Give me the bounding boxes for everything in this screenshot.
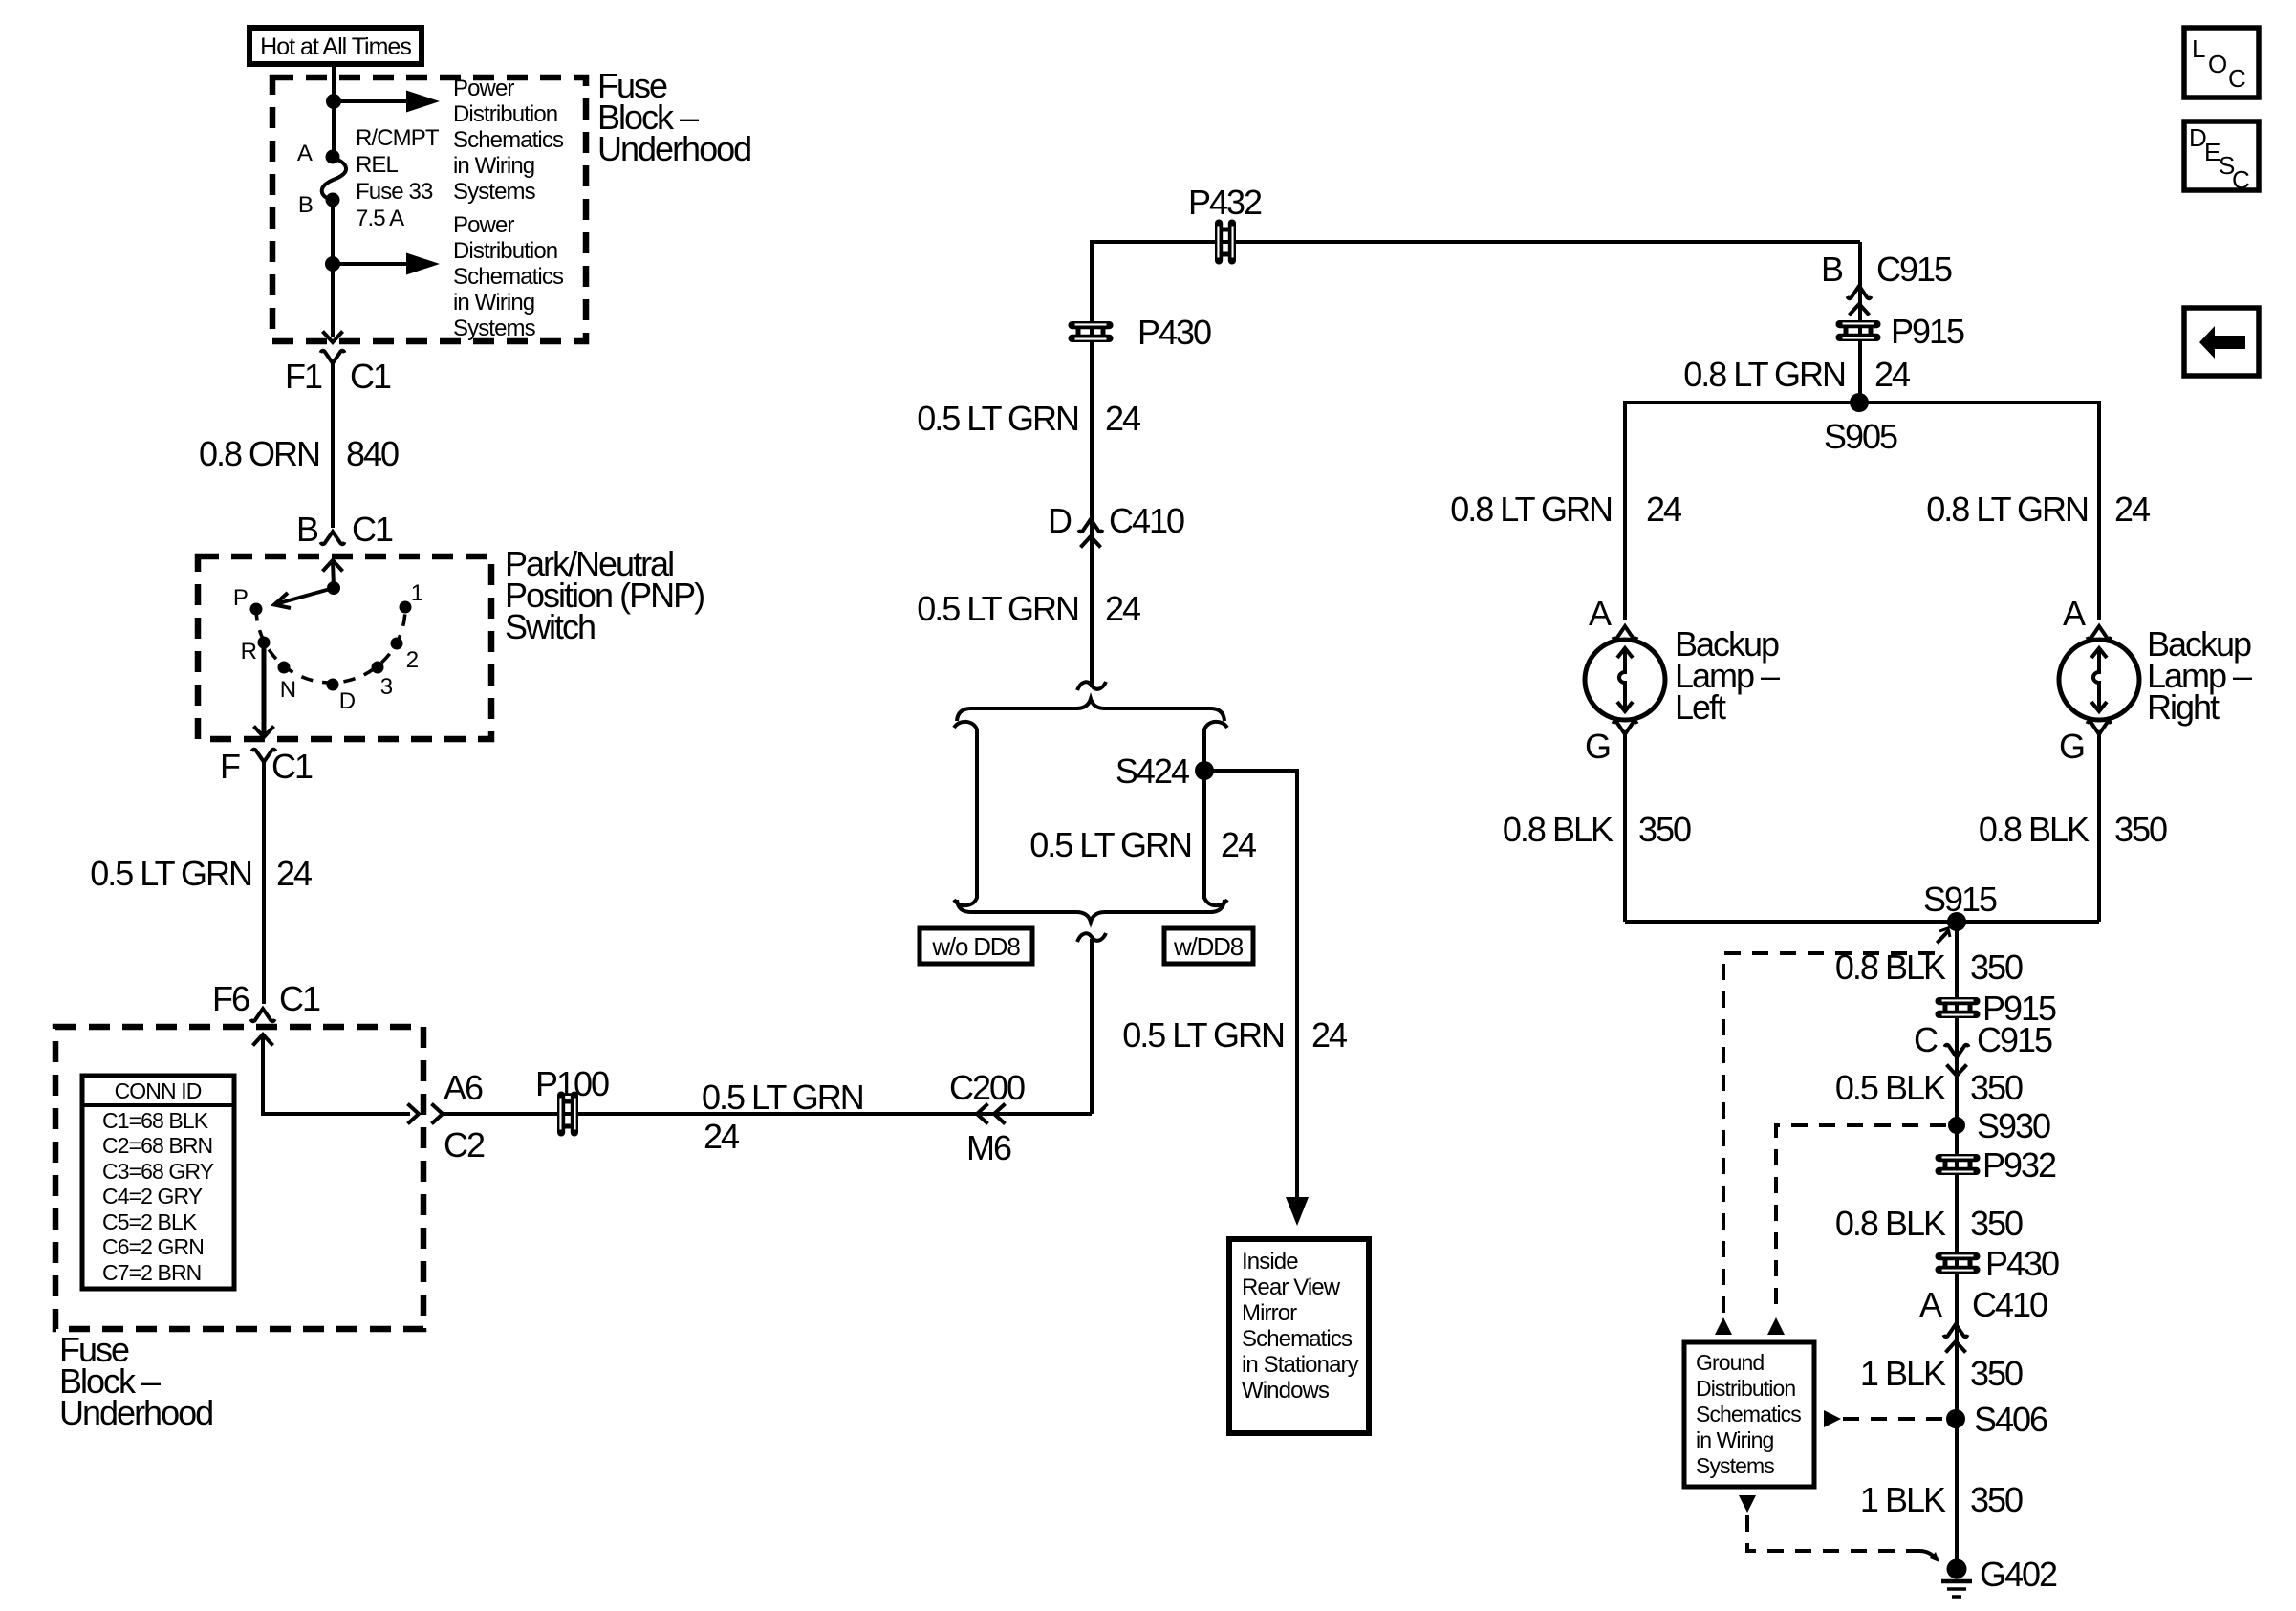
label Fuse Block - Underhood (top) [597, 66, 750, 168]
connector at right lamp G [2088, 722, 2112, 734]
arrow from ground note to S406 [1824, 1410, 1841, 1427]
svg-text:G: G [1585, 727, 1610, 766]
svg-text:C915: C915 [1876, 250, 1952, 289]
svg-text:C7=2 BRN: C7=2 BRN [102, 1260, 201, 1285]
power feed box Hot at All Times [249, 28, 422, 64]
svg-text:D: D [1048, 501, 1072, 540]
fuse value text [356, 125, 440, 231]
contact D [327, 679, 339, 691]
svg-text:P915: P915 [1891, 312, 1964, 351]
svg-text:24: 24 [1221, 825, 1256, 864]
svg-text:Power: Power [453, 212, 514, 238]
label Backup Lamp - Right [2147, 624, 2252, 727]
svg-text:350: 350 [1970, 1480, 2023, 1519]
option bracket left [954, 722, 977, 905]
svg-text:350: 350 [1970, 1068, 2023, 1107]
svg-text:24: 24 [1105, 399, 1140, 438]
corner box back arrow [2184, 308, 2259, 376]
svg-text:Systems: Systems [453, 316, 536, 341]
svg-text:C1: C1 [271, 747, 313, 786]
svg-text:F: F [220, 747, 240, 786]
note power distribution schematics (2) [453, 212, 564, 341]
connector F6/C1 [251, 1009, 275, 1046]
svg-text:P430: P430 [1985, 1244, 2059, 1283]
connector D/C410 [1079, 519, 1103, 548]
svg-text:D: D [339, 688, 356, 714]
note ground distribution schematics [1684, 1342, 1814, 1487]
wire to P100 [443, 1112, 1092, 1116]
contact 3 [372, 662, 384, 674]
contact P [250, 603, 263, 616]
lamp feed rail [1625, 403, 2099, 620]
ground G402 [1941, 1559, 1972, 1598]
svg-text:350: 350 [1970, 1204, 2023, 1243]
connector chevrons exiting fuse block [408, 1104, 444, 1124]
svg-text:C2=68 BRN: C2=68 BRN [102, 1133, 212, 1158]
svg-text:0.5 LT GRN: 0.5 LT GRN [90, 854, 251, 893]
wire into switch [333, 560, 334, 588]
CONN ID table [82, 1076, 234, 1289]
svg-text:A: A [297, 141, 313, 166]
note inside rear view mirror schematics [1229, 1239, 1369, 1433]
svg-text:2: 2 [406, 647, 419, 673]
contact R [258, 637, 271, 649]
wire right side down from P432 run [1858, 242, 1862, 403]
svg-text:Right: Right [2147, 687, 2220, 727]
svg-text:S406: S406 [1974, 1400, 2047, 1439]
svg-text:Mirror: Mirror [1242, 1300, 1297, 1326]
wire left lamp to ground rail [1623, 734, 1627, 922]
svg-text:C1: C1 [350, 357, 391, 396]
dashed link ground note to S406 [1843, 1417, 1947, 1421]
svg-text:Schematics: Schematics [453, 127, 564, 153]
svg-text:C6=2 GRN: C6=2 GRN [102, 1234, 204, 1259]
svg-text:Left: Left [1675, 687, 1726, 727]
option brace top [957, 699, 1224, 721]
svg-text:0.5 LT GRN: 0.5 LT GRN [917, 589, 1078, 628]
svg-text:Systems: Systems [1696, 1453, 1774, 1478]
svg-text:C3=68 GRY: C3=68 GRY [102, 1159, 214, 1184]
option tag w/DD8 [1164, 928, 1253, 964]
grommet P432 [1215, 220, 1236, 265]
junction node top [326, 94, 341, 109]
svg-text:S905: S905 [1824, 417, 1897, 456]
wire up to option braces [1090, 939, 1094, 1114]
arrow into ground note (from S930) [1767, 1317, 1785, 1335]
svg-text:Schematics: Schematics [1696, 1402, 1801, 1426]
svg-text:B: B [298, 192, 313, 218]
svg-text:840: 840 [346, 434, 399, 473]
corner box DESC [2184, 121, 2259, 194]
svg-text:A: A [1589, 594, 1612, 633]
svg-text:0.8 LT GRN: 0.8 LT GRN [1683, 355, 1845, 394]
svg-text:M6: M6 [966, 1128, 1011, 1167]
option bracket right [1204, 722, 1227, 905]
svg-text:C1=68 BLK: C1=68 BLK [102, 1108, 209, 1133]
wire 0.5 LT GRN 24 (left) [262, 762, 266, 1004]
svg-text:C915: C915 [1977, 1020, 2052, 1059]
wire branch to power distribution (2) [333, 262, 411, 266]
svg-text:CONN ID: CONN ID [115, 1078, 202, 1103]
svg-text:0.5 BLK: 0.5 BLK [1835, 1068, 1946, 1107]
fuse block underhood dashed outline (bottom) [55, 1027, 423, 1329]
svg-text:0.5 LT GRN: 0.5 LT GRN [917, 399, 1078, 438]
svg-text:REL: REL [356, 152, 399, 178]
svg-text:B: B [1821, 250, 1843, 289]
switch wiper node [327, 581, 340, 595]
svg-text:N: N [280, 677, 295, 703]
connector F/C1 [252, 727, 276, 763]
svg-text:Fuse 33: Fuse 33 [356, 179, 433, 205]
contact 1 [400, 601, 412, 614]
grommet P100 [557, 1092, 578, 1137]
svg-text:A: A [2063, 594, 2086, 633]
connector at right lamp A [2088, 626, 2112, 639]
svg-text:Distribution: Distribution [453, 238, 557, 264]
svg-text:P100: P100 [535, 1064, 609, 1103]
svg-text:w/DD8: w/DD8 [1173, 932, 1244, 961]
dashed link S915 to ground note [1723, 928, 1950, 1314]
svg-text:Windows: Windows [1242, 1378, 1330, 1404]
wire end squiggle above brace [1077, 682, 1106, 690]
svg-text:7.5 A: 7.5 A [356, 206, 404, 231]
wire right lamp to ground rail [2097, 734, 2101, 922]
contact 2 [391, 638, 403, 650]
fuse block underhood dashed outline (top) [272, 77, 586, 341]
svg-text:350: 350 [2114, 810, 2167, 849]
svg-text:G402: G402 [1980, 1555, 2057, 1594]
contact N [278, 662, 291, 674]
label Park/Neutral Position (PNP) Switch [505, 544, 704, 646]
svg-text:Underhood: Underhood [59, 1393, 212, 1432]
svg-text:C5=2 BLK: C5=2 BLK [102, 1209, 198, 1234]
ground stack wire [1955, 922, 1959, 1569]
svg-text:in Wiring: in Wiring [1696, 1427, 1773, 1452]
svg-text:P932: P932 [1982, 1145, 2056, 1185]
top feed wire with P432 [1092, 242, 1860, 687]
svg-text:C200: C200 [949, 1068, 1025, 1107]
svg-text:Schematics: Schematics [453, 264, 564, 290]
option tag w/o DD8 [920, 928, 1032, 964]
svg-text:Distribution: Distribution [453, 101, 557, 127]
svg-text:C410: C410 [1109, 501, 1184, 540]
svg-text:0.8 BLK: 0.8 BLK [1503, 810, 1614, 849]
svg-text:P430: P430 [1137, 313, 1211, 352]
svg-text:C: C [2228, 64, 2245, 93]
svg-text:Underhood: Underhood [597, 129, 750, 168]
arrow from ground note to G402 [1739, 1495, 1756, 1513]
splice S905 [1850, 393, 1869, 412]
svg-text:R/CMPT: R/CMPT [356, 125, 440, 151]
grommet P915 (bottom) [1936, 997, 1981, 1018]
svg-text:24: 24 [1874, 355, 1910, 394]
svg-text:P432: P432 [1188, 183, 1262, 222]
svg-text:Ground: Ground [1696, 1350, 1764, 1375]
arrow into mirror note [1286, 1197, 1309, 1226]
connector C200/M6 [977, 1104, 1006, 1124]
svg-text:Power: Power [453, 76, 514, 101]
connector C/C915 [1945, 1045, 1969, 1076]
svg-text:Systems: Systems [453, 179, 536, 205]
wire below fuse [331, 200, 335, 337]
dashed link S930 to ground note [1776, 1125, 1946, 1314]
svg-text:350: 350 [1970, 1354, 2023, 1393]
svg-text:A: A [1919, 1285, 1942, 1324]
svg-text:C1: C1 [352, 510, 393, 549]
svg-text:F6: F6 [212, 979, 249, 1018]
svg-text:24: 24 [1311, 1015, 1347, 1055]
svg-text:C: C [2232, 165, 2249, 194]
svg-text:in Stationary: in Stationary [1242, 1352, 1359, 1378]
wire branch to power distribution (1) [334, 99, 411, 103]
park/neutral position switch dashed outline [198, 556, 491, 739]
connector at left lamp A [1614, 626, 1637, 639]
svg-text:0.5 LT GRN: 0.5 LT GRN [702, 1078, 863, 1117]
svg-text:w/o DD8: w/o DD8 [931, 932, 1020, 961]
wire start squiggle below brace [1077, 933, 1106, 942]
splice S424 [1195, 761, 1214, 780]
svg-text:C4=2 GRY: C4=2 GRY [102, 1184, 203, 1208]
svg-text:350: 350 [1638, 810, 1691, 849]
label Fuse Block - Underhood (bottom) [59, 1330, 212, 1432]
backup lamp right [2059, 640, 2139, 720]
svg-text:S915: S915 [1923, 880, 1997, 919]
wire from S424 to mirror feed [1204, 771, 1297, 1197]
note power distribution schematics (1) [453, 76, 564, 205]
svg-text:350: 350 [1970, 947, 2023, 987]
wire from Hot at All Times into fuse block [332, 64, 336, 156]
svg-text:0.8 BLK: 0.8 BLK [1835, 1204, 1946, 1243]
svg-text:P: P [233, 585, 248, 611]
svg-text:0.8 LT GRN: 0.8 LT GRN [1926, 490, 2088, 529]
svg-text:0.8 LT GRN: 0.8 LT GRN [1450, 490, 1612, 529]
svg-text:A6: A6 [444, 1068, 483, 1107]
svg-text:Rear View: Rear View [1242, 1274, 1341, 1300]
svg-text:Inside: Inside [1242, 1249, 1298, 1274]
grommet P915 (top) [1836, 320, 1881, 341]
svg-text:C: C [1914, 1020, 1938, 1059]
svg-text:Switch: Switch [505, 607, 595, 646]
splice S930 [1948, 1117, 1965, 1134]
svg-text:0.5 LT GRN: 0.5 LT GRN [1122, 1015, 1284, 1055]
svg-text:S930: S930 [1977, 1106, 2050, 1145]
svg-text:0.5 LT GRN: 0.5 LT GRN [1029, 825, 1191, 864]
svg-text:24: 24 [1646, 490, 1681, 529]
connector A/C410 [1944, 1324, 1968, 1353]
corner box LOC [2184, 28, 2259, 98]
dashed link ground note to G402 [1747, 1515, 1939, 1562]
svg-text:in Wiring: in Wiring [453, 153, 534, 179]
svg-text:L: L [2192, 34, 2205, 63]
ground rail [1625, 920, 2099, 924]
svg-text:Distribution: Distribution [1696, 1376, 1795, 1401]
svg-text:1 BLK: 1 BLK [1860, 1354, 1946, 1393]
svg-text:24: 24 [276, 854, 312, 893]
svg-text:24: 24 [704, 1117, 739, 1156]
svg-text:C1: C1 [279, 979, 320, 1018]
splice S915 [1947, 912, 1966, 931]
svg-text:F1: F1 [285, 357, 322, 396]
wire from contact R down [262, 642, 267, 734]
svg-text:O: O [2208, 50, 2226, 78]
svg-text:B: B [296, 510, 318, 549]
splice S406 [1946, 1409, 1965, 1428]
grommet P932 [1936, 1154, 1981, 1175]
svg-text:24: 24 [2114, 490, 2150, 529]
switch contact arc dashed [256, 607, 405, 683]
fuse R/CMPT REL Fuse 33 7.5 A [322, 150, 346, 207]
switch wiper arm to P [274, 588, 334, 608]
svg-text:in Wiring: in Wiring [453, 290, 534, 316]
connector at left lamp G [1614, 722, 1637, 734]
svg-text:1 BLK: 1 BLK [1860, 1480, 1946, 1519]
svg-text:0.8 ORN: 0.8 ORN [199, 434, 319, 473]
grommet P430 (bottom) [1936, 1252, 1981, 1274]
svg-text:G: G [2059, 727, 2084, 766]
svg-text:R: R [241, 639, 257, 664]
junction node lower [325, 256, 340, 272]
grommet P430 (middle) [1069, 321, 1114, 342]
label Backup Lamp - Left [1675, 624, 1780, 727]
option brace bottom [957, 900, 1224, 922]
svg-text:Schematics: Schematics [1242, 1326, 1353, 1352]
connector F1/C1 [321, 332, 345, 364]
connector B/C915 [1848, 286, 1872, 316]
svg-text:C410: C410 [1972, 1285, 2047, 1324]
svg-text:1: 1 [411, 580, 423, 606]
svg-text:24: 24 [1105, 589, 1140, 628]
svg-text:3: 3 [380, 674, 393, 700]
svg-text:0.8 BLK: 0.8 BLK [1979, 810, 2090, 849]
wire 0.8 ORN 840 [331, 363, 335, 528]
svg-text:C2: C2 [444, 1125, 485, 1165]
connector B/C1 [321, 532, 345, 572]
svg-text:S424: S424 [1116, 751, 1189, 791]
arrow into ground note (from S915) [1715, 1317, 1732, 1335]
wire inside fuse block to A6 [263, 1034, 410, 1114]
svg-text:Hot at All Times: Hot at All Times [260, 33, 411, 60]
backup lamp left [1585, 640, 1665, 720]
